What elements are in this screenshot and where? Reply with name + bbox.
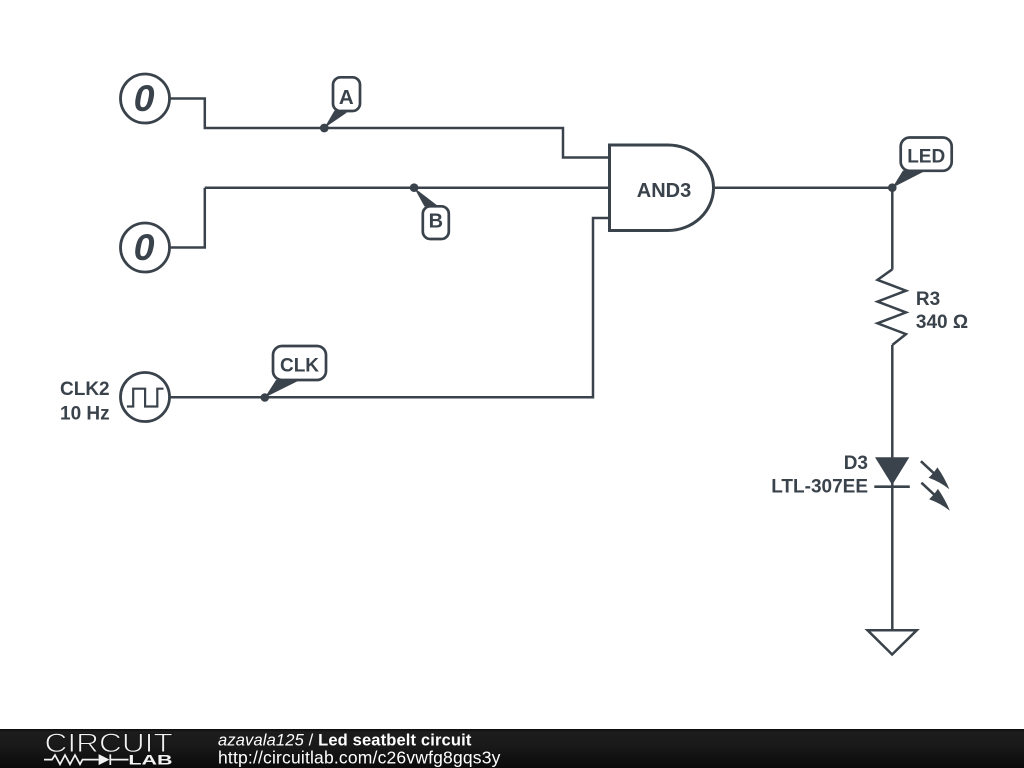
svg-text:B: B bbox=[429, 211, 443, 233]
svg-text:LAB: LAB bbox=[128, 752, 173, 767]
svg-text:AND3: AND3 bbox=[637, 180, 691, 202]
svg-text:LED: LED bbox=[907, 147, 945, 168]
svg-text:0: 0 bbox=[134, 77, 155, 119]
svg-text:R3: R3 bbox=[916, 289, 940, 310]
svg-text:340 Ω: 340 Ω bbox=[916, 312, 968, 333]
svg-text:10 Hz: 10 Hz bbox=[60, 404, 110, 425]
svg-text:LTL-307EE: LTL-307EE bbox=[771, 477, 868, 498]
svg-text:CLK2: CLK2 bbox=[60, 379, 110, 400]
svg-text:0: 0 bbox=[134, 226, 155, 268]
svg-text:A: A bbox=[339, 86, 354, 109]
svg-text:D3: D3 bbox=[844, 453, 868, 474]
svg-text:CLK: CLK bbox=[280, 356, 319, 377]
svg-text:http://circuitlab.com/c26vwfg8: http://circuitlab.com/c26vwfg8gqs3y bbox=[218, 747, 501, 767]
